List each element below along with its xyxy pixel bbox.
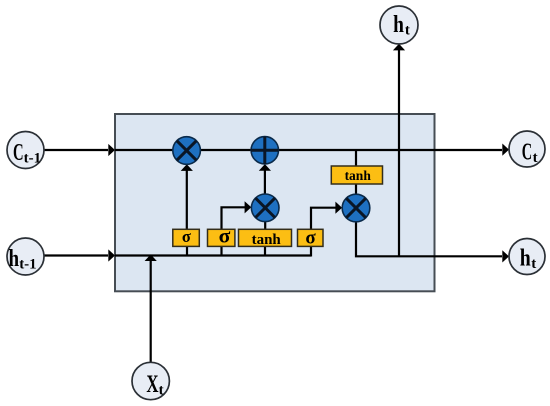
wire sigma3 elbow to multiply-right: [311, 202, 342, 230]
wire C line down to tanh-top: [355, 150, 357, 168]
svg-text:h: h: [9, 246, 20, 272]
gate sigma2 box: [208, 224, 235, 248]
svg-text:C: C: [13, 140, 24, 166]
svg-text:σ: σ: [305, 227, 316, 248]
gate tanh top box: [331, 166, 382, 184]
wire X(t) input arrow: [145, 254, 157, 362]
op add: [251, 137, 278, 164]
svg-text:t: t: [533, 150, 538, 166]
svg-text:h: h: [520, 246, 531, 272]
wire C main line: [115, 144, 509, 156]
wire h(t) riser to top: [393, 44, 405, 256]
svg-text:σ: σ: [182, 227, 191, 246]
wire C(t-1) input: [44, 144, 115, 156]
svg-text:σ: σ: [219, 224, 231, 248]
wire sigma1 to multiply1: [181, 164, 193, 230]
svg-text:t: t: [159, 383, 164, 399]
wire riser to sigma2: [220, 246, 222, 256]
wire multiply-mid to add: [259, 164, 271, 194]
node h(t) top: [380, 6, 418, 44]
node X(t): [132, 362, 169, 399]
wire riser to tanh bottom: [264, 246, 266, 256]
wire multiply-right output to h(t): [356, 222, 509, 263]
wire sigma2 elbow to multiply-mid: [222, 201, 252, 230]
gate sigma3 box: [298, 227, 324, 248]
wire h(t-1) input: [44, 249, 115, 261]
svg-text:C: C: [522, 140, 532, 166]
svg-text:tanh: tanh: [252, 232, 282, 248]
svg-text:t: t: [531, 256, 536, 272]
wire tanh-top to multiply-right: [355, 184, 357, 194]
wire tanh-bottom to multiply-mid: [264, 222, 266, 231]
wire riser to sigma3: [310, 246, 312, 257]
svg-text:t: t: [405, 22, 410, 38]
gate tanh bottom box: [239, 229, 292, 248]
op multiply1: [173, 137, 201, 165]
op multiply right: [342, 194, 370, 222]
op multiply mid: [251, 194, 279, 222]
wire h main line left: [115, 254, 311, 256]
wire riser to sigma1: [186, 246, 188, 256]
svg-text:X: X: [146, 371, 158, 398]
node h(t-1): [7, 238, 44, 275]
LSTM cell body: [115, 114, 435, 291]
svg-text:t-1: t-1: [24, 150, 41, 166]
node C(t-1): [7, 132, 44, 169]
svg-text:tanh: tanh: [345, 168, 372, 183]
gate sigma1 box: [173, 227, 200, 246]
node h(t) right: [509, 239, 545, 275]
node C(t): [509, 131, 545, 167]
svg-text:t-1: t-1: [19, 256, 37, 272]
svg-text:h: h: [393, 12, 404, 38]
